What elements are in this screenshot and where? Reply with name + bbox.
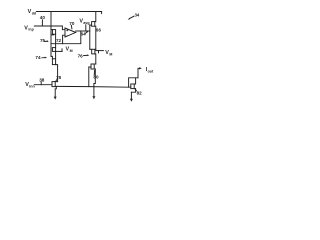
svg-text:M: M [109, 52, 112, 56]
wire node 64 riser to gates of 66 and 76 [89, 25, 91, 49]
wire feedback bus node 75 to output riser [51, 31, 81, 44]
svg-text:M: M [70, 49, 73, 53]
wire drain of 82 to gate node [129, 78, 138, 87]
svg-text:inp: inp [28, 28, 34, 32]
transistor 74 upper [52, 44, 55, 59]
transistor 76 [90, 49, 96, 64]
svg-text:avg: avg [83, 21, 89, 25]
wire drain jog of 72 [51, 29, 52, 31]
ground arrow under 80 [92, 69, 95, 99]
svg-text:74: 74 [35, 55, 41, 60]
svg-text:82: 82 [137, 91, 143, 96]
terminal 38 [39, 77, 45, 84]
svg-text:75: 75 [40, 38, 46, 43]
svg-text:out: out [148, 69, 154, 73]
svg-text:40: 40 [40, 15, 46, 20]
wire gate drop of 80 [88, 67, 90, 87]
svg-text:66: 66 [96, 27, 102, 32]
transistor 78 [52, 75, 62, 87]
transistor 80 [89, 64, 99, 80]
node V_M right tap [96, 50, 113, 57]
label 76 [78, 53, 90, 58]
node V_M left tap [56, 46, 73, 53]
label V_inp [24, 25, 34, 31]
label 75 [40, 38, 49, 43]
ground arrow under 78 [54, 87, 57, 100]
transistor 82 [131, 78, 142, 96]
svg-text:80: 80 [93, 75, 99, 80]
label V_inn [25, 82, 34, 88]
wire V_avg tick to node 64 [85, 25, 87, 31]
svg-text:70: 70 [69, 21, 75, 26]
wire gate jog of 72 [51, 34, 54, 36]
node 34 pointer [128, 12, 140, 19]
label 74 [35, 55, 47, 60]
svg-text:34: 34 [135, 12, 140, 17]
svg-text:38: 38 [39, 77, 45, 82]
svg-text:76: 76 [78, 53, 84, 58]
transistor 66 [90, 12, 102, 50]
svg-text:dd: dd [32, 11, 36, 15]
label V_dd [28, 9, 36, 15]
op-amp 70 [65, 21, 76, 38]
terminal 40 [40, 15, 46, 26]
wire Vdd drop and node 75 gate bus [50, 12, 52, 57]
wire Vdd top rail [40, 12, 102, 14]
svg-text:64: 64 [81, 32, 87, 37]
wire gate bus 78 to 80 to 82 [56, 85, 131, 88]
label V_avg [79, 19, 89, 26]
wire Vdd lead dash [36, 11, 40, 13]
wire Vinp to op-amp non-inverting input [34, 26, 65, 30]
label 64 [81, 31, 89, 37]
svg-text:+: + [66, 29, 68, 33]
ground arrow under 82 [130, 92, 133, 102]
node 64 output wire of op-amp [76, 30, 90, 32]
transistor 74 lower [52, 59, 57, 82]
wire Vinn to gate of 78 [34, 84, 52, 86]
wire op-amp inverting input feedback [63, 35, 65, 44]
transistor 72 [52, 30, 61, 44]
node I_out arrow [138, 67, 154, 78]
wire gate jog of 74 [51, 56, 52, 58]
svg-text:72: 72 [56, 38, 62, 43]
